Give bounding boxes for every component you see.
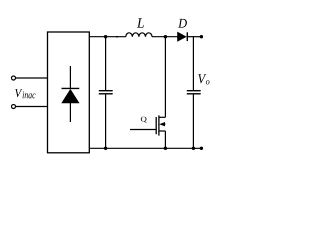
wire: input capacitor branch top — [105, 37, 107, 90]
terminal dot: output negative — [200, 147, 203, 150]
bridge rectifier box — [48, 32, 90, 153]
wire: top rail from bridge to inductor — [89, 36, 126, 38]
inductor L — [126, 33, 152, 37]
terminal: AC input upper — [12, 76, 16, 80]
wire: bottom rail — [89, 147, 202, 149]
junction: input capacitor top node — [104, 35, 107, 38]
label D — [178, 19, 187, 28]
junction: MOSFET source node — [164, 147, 167, 150]
terminal: AC input lower — [12, 105, 16, 109]
wire: MOSFET source to bottom rail — [164, 131, 166, 148]
label Vinac — [15, 89, 35, 98]
wire: output capacitor branch top — [192, 37, 194, 90]
wire: diode to output node — [187, 36, 202, 38]
junction: output capacitor bottom node — [192, 147, 195, 150]
terminal dot: output positive — [200, 35, 203, 38]
label Q — [141, 117, 147, 123]
wire: MOSFET gate lead — [130, 129, 156, 131]
diode D — [178, 32, 188, 41]
junction: MOSFET drain node — [164, 35, 167, 38]
label Vo — [198, 74, 209, 84]
label L — [137, 18, 144, 27]
wire: input capacitor branch bottom — [105, 94, 107, 148]
capacitor (output) — [187, 91, 201, 94]
diode inside bridge rectifier — [62, 66, 80, 122]
solder blob on top rail — [116, 36, 118, 38]
wire: output capacitor branch bottom — [192, 94, 194, 148]
wire: inductor to diode — [152, 36, 178, 38]
junction: input capacitor bottom node — [104, 147, 107, 150]
wire: upper AC input to bridge — [16, 77, 48, 79]
capacitor (input filter) — [99, 91, 113, 94]
wire: lower AC input to bridge — [16, 106, 48, 108]
wire: MOSFET drain to top rail — [164, 37, 166, 118]
transistor Q (MOSFET) — [156, 115, 165, 135]
